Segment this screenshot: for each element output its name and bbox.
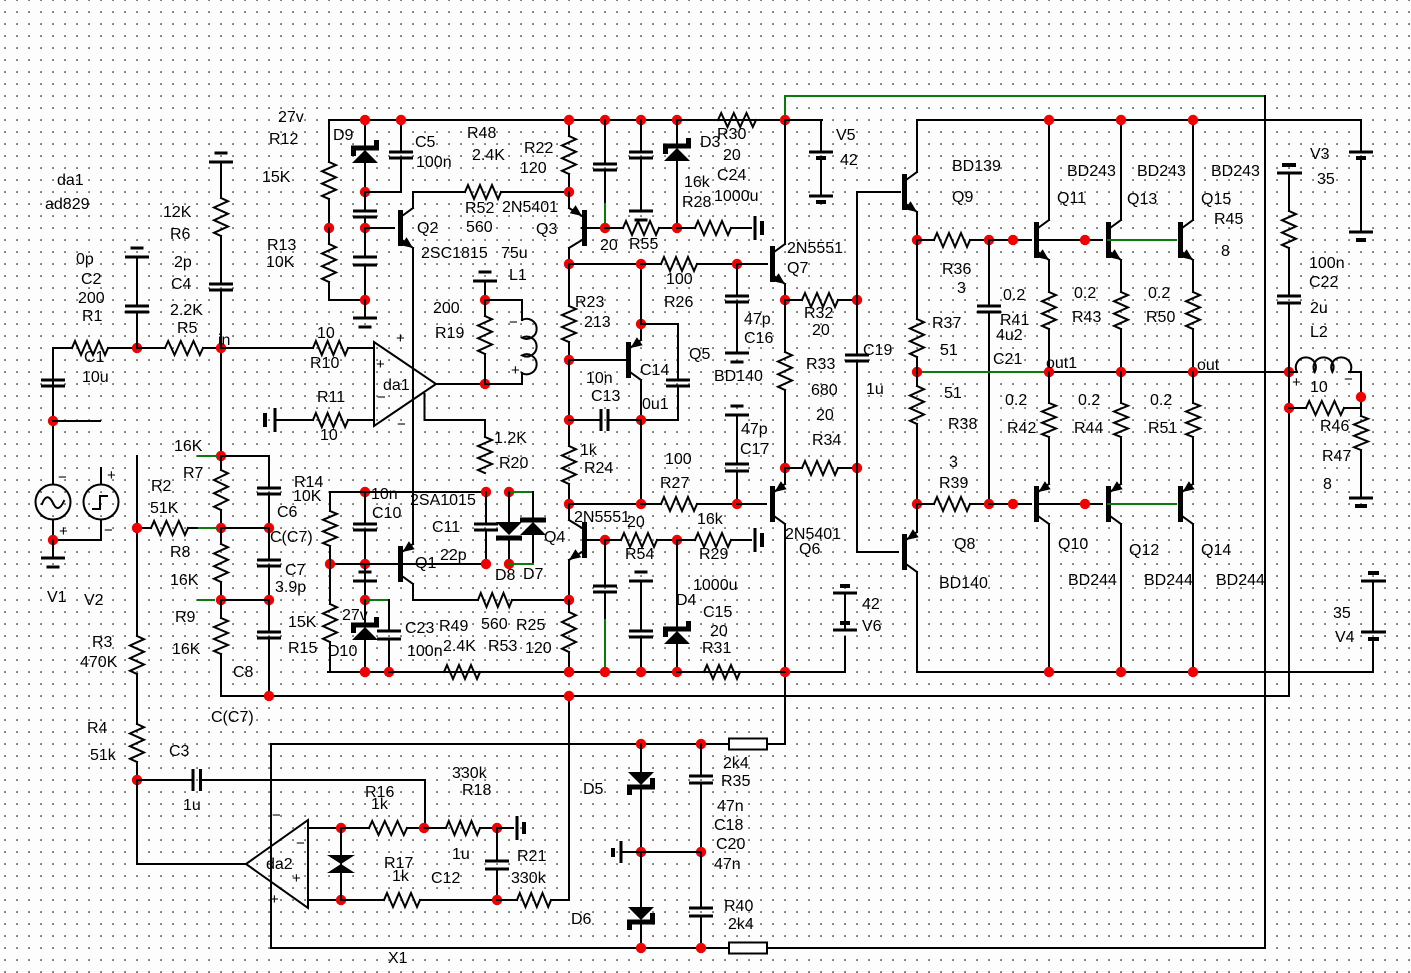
wire C14 top xyxy=(641,324,678,380)
wire Q11 emitter xyxy=(1048,260,1050,292)
label 2N5551 xyxy=(787,240,843,257)
node C21 top dot xyxy=(984,235,994,245)
svg-text:Q5: Q5 xyxy=(689,346,710,363)
svg-text:0.2: 0.2 xyxy=(1150,392,1172,409)
resistor R19 xyxy=(478,300,492,384)
resistor R14 xyxy=(323,492,365,564)
capacitor C12 xyxy=(485,828,509,900)
wire Q7 base xyxy=(737,263,767,265)
battery V5 cell2 xyxy=(809,196,833,202)
label 2SC1815 xyxy=(421,245,488,262)
node Q15 rail dot xyxy=(1188,115,1198,125)
svg-text:51: 51 xyxy=(940,342,958,359)
label 0.2 xyxy=(1005,392,1027,409)
battery V6 cell1 xyxy=(833,586,857,593)
label Q9 xyxy=(952,189,973,206)
wire top supply rail right segment xyxy=(917,119,1361,121)
svg-text:+: + xyxy=(511,362,520,379)
battery V4 link xyxy=(1372,581,1374,632)
label R15 xyxy=(288,640,317,657)
label BD243 xyxy=(1137,163,1186,180)
label 20 xyxy=(627,514,645,531)
label da1 inner minus xyxy=(377,389,386,406)
svg-text:16k: 16k xyxy=(697,511,724,528)
svg-text:out1: out1 xyxy=(1046,355,1077,372)
label Q6 xyxy=(799,541,820,558)
wire L2 right corner xyxy=(1349,372,1361,416)
green stub x605 xyxy=(604,204,606,226)
wire X1 loop left and bottom xyxy=(271,744,1265,948)
label R4 xyxy=(87,720,108,737)
node D3 bottom dot xyxy=(672,223,682,233)
svg-text:R38: R38 xyxy=(948,416,977,433)
svg-text:10: 10 xyxy=(1310,379,1328,396)
svg-text:D4: D4 xyxy=(676,592,697,609)
wire R26 row left xyxy=(569,263,641,265)
svg-text:Q15: Q15 xyxy=(1201,191,1231,208)
resistor R33 xyxy=(778,300,792,468)
label da1 outer plus xyxy=(396,330,405,347)
wire green positive feed top xyxy=(785,96,1265,120)
svg-text:V3: V3 xyxy=(1310,146,1330,163)
wire V2 top lead xyxy=(100,468,102,485)
label L2 plus xyxy=(1292,374,1301,391)
svg-text:R23: R23 xyxy=(575,294,604,311)
resistor R41 xyxy=(1042,292,1056,372)
wire Q4 emitter lead xyxy=(568,560,570,600)
svg-text:R15: R15 xyxy=(288,640,317,657)
svg-text:100: 100 xyxy=(666,271,693,288)
resistor R50 xyxy=(1186,292,1200,372)
node in dot xyxy=(216,343,226,353)
svg-text:C1: C1 xyxy=(84,349,105,366)
svg-text:10n: 10n xyxy=(586,370,613,387)
wire Q8 collector xyxy=(916,572,918,672)
wire feedback column xyxy=(136,456,138,780)
svg-text:20: 20 xyxy=(812,322,830,339)
wire mid horizontal bus y696 xyxy=(269,695,1289,697)
resistor R15 xyxy=(323,564,337,672)
label 120 xyxy=(525,640,552,657)
wire Q5 collector down xyxy=(640,380,642,420)
resistor R11 xyxy=(275,413,374,427)
capacitor C7 xyxy=(257,528,281,600)
svg-text:Q8: Q8 xyxy=(954,536,975,553)
label R10 xyxy=(310,355,339,372)
resistor R23 xyxy=(562,264,576,360)
node C3 dot xyxy=(132,775,142,785)
svg-text:R49: R49 xyxy=(439,618,468,635)
label R44 xyxy=(1074,420,1103,437)
svg-text:R19: R19 xyxy=(435,325,464,342)
label L1 plus xyxy=(511,362,520,379)
svg-text:V5: V5 xyxy=(836,127,856,144)
svg-text:R51: R51 xyxy=(1148,420,1177,437)
svg-text:D7: D7 xyxy=(523,566,544,583)
wire R27 row left xyxy=(569,503,641,505)
wire da1 output xyxy=(436,383,485,385)
wire Q14 collector xyxy=(1192,524,1194,672)
resistor R3 xyxy=(130,636,144,674)
svg-text:16K: 16K xyxy=(170,572,199,589)
label da2 inner minus xyxy=(296,835,305,852)
svg-text:C3: C3 xyxy=(169,743,190,760)
node R26 mid dot xyxy=(636,259,646,269)
svg-text:120: 120 xyxy=(520,160,547,177)
svg-text:3.9p: 3.9p xyxy=(275,579,306,596)
wire Q12 collector xyxy=(1120,524,1122,672)
svg-text:BD140: BD140 xyxy=(939,575,988,592)
node D6 bottom dot xyxy=(636,943,646,953)
node R39 right dot xyxy=(984,499,994,509)
polarized capacitor C18 xyxy=(613,841,621,863)
label 16k xyxy=(684,174,711,191)
label D9 xyxy=(333,127,354,144)
svg-text:C12: C12 xyxy=(431,870,460,887)
capacitor C11 xyxy=(474,492,498,564)
label C19 xyxy=(863,342,892,359)
svg-text:10: 10 xyxy=(317,325,335,342)
label D3 xyxy=(700,134,721,151)
wire Q3 base to R55 xyxy=(582,227,605,229)
resistor R51 xyxy=(1186,372,1200,437)
svg-text:0.2: 0.2 xyxy=(1074,285,1096,302)
svg-text:4u2: 4u2 xyxy=(996,327,1023,344)
svg-text:R28: R28 xyxy=(682,194,711,211)
svg-text:C8: C8 xyxy=(233,664,254,681)
svg-text:C11: C11 xyxy=(432,519,460,536)
capacitor C23 xyxy=(377,600,401,672)
label C1 xyxy=(84,349,105,366)
resistor R2 xyxy=(137,521,199,535)
resistor R7 xyxy=(214,456,228,528)
label R47 xyxy=(1322,448,1351,465)
svg-text:100n: 100n xyxy=(1309,255,1345,272)
node V1 bottom dot xyxy=(48,535,58,545)
svg-text:1k: 1k xyxy=(371,796,389,813)
node da2 minus dot xyxy=(336,823,346,833)
label C5 xyxy=(415,134,436,151)
label X1 xyxy=(388,950,408,967)
label R48 xyxy=(467,125,496,142)
node R39 left dot xyxy=(912,499,922,509)
node C11 bottom dot xyxy=(481,559,491,569)
node R36 left dot xyxy=(912,235,922,245)
label 20 xyxy=(600,237,618,254)
label 42 xyxy=(840,152,858,169)
svg-text:C7: C7 xyxy=(285,562,306,579)
battery V6 link xyxy=(844,593,846,630)
wire V5 corner xyxy=(785,120,821,152)
label R30 xyxy=(717,126,746,143)
resistor R55 xyxy=(605,221,677,235)
label V4 xyxy=(1335,629,1355,646)
label R55 xyxy=(629,236,658,253)
diode pair at da2 xyxy=(327,828,355,900)
label 200 xyxy=(433,300,460,317)
svg-text:C(C7): C(C7) xyxy=(270,529,313,546)
capacitor C4 xyxy=(209,236,233,348)
svg-text:C17: C17 xyxy=(740,441,769,458)
wire out1 green xyxy=(917,371,1049,373)
label 2k4 xyxy=(723,755,749,772)
wire Q2-Q1 emitter column xyxy=(412,248,414,544)
resistor R20 xyxy=(478,437,492,473)
svg-text:V6: V6 xyxy=(862,618,882,635)
capacitor x605 top xyxy=(593,120,617,204)
transistor Q5 PNP xyxy=(626,337,643,380)
label 20 xyxy=(812,322,830,339)
label V2 xyxy=(84,592,104,609)
ground flag above R6 xyxy=(209,153,233,198)
svg-text:100n: 100n xyxy=(416,154,452,171)
svg-text:2N5401: 2N5401 xyxy=(502,199,558,216)
resistor R13 xyxy=(322,228,365,300)
svg-text:C21: C21 xyxy=(993,351,1022,368)
svg-text:3: 3 xyxy=(957,280,966,297)
wire Q8 base branch xyxy=(857,468,898,552)
label 2.4K xyxy=(443,638,476,655)
svg-text:20: 20 xyxy=(816,407,834,424)
svg-text:R25: R25 xyxy=(516,617,545,634)
label C10 xyxy=(372,505,401,522)
polarized cap C22 top xyxy=(1277,165,1302,173)
label 330k xyxy=(452,765,488,782)
node R26 left dot xyxy=(564,259,574,269)
label 20 xyxy=(723,147,741,164)
node D9 top dot xyxy=(360,115,370,125)
capacitor C8 xyxy=(257,600,281,696)
svg-text:75u: 75u xyxy=(501,245,528,262)
node x605 rail dot2 xyxy=(600,667,610,677)
svg-text:R53: R53 xyxy=(488,638,517,655)
node R19 top dot xyxy=(480,295,490,305)
svg-text:R7: R7 xyxy=(183,465,204,482)
wire row564 xyxy=(330,563,486,565)
label C13 xyxy=(591,388,620,405)
svg-text:2k4: 2k4 xyxy=(728,916,754,933)
capacitor x641 bottom xyxy=(629,590,653,672)
label R20 xyxy=(499,455,528,472)
wire Q1 collector to R49 row xyxy=(413,584,478,600)
label BD139 xyxy=(952,158,1001,175)
resistor R36 xyxy=(917,233,989,247)
battery V4 cell1 xyxy=(1361,573,1386,581)
wire R8-C7 row xyxy=(221,599,269,601)
svg-text:R27: R27 xyxy=(660,475,689,492)
wire Q13 emitter xyxy=(1120,260,1122,292)
node R24 bottom dot xyxy=(564,499,574,509)
label 16K xyxy=(172,641,201,658)
resistor R6 xyxy=(214,198,228,236)
svg-text:+: + xyxy=(107,467,116,484)
label Q14 xyxy=(1201,542,1231,559)
svg-text:−: − xyxy=(272,807,281,824)
label 2u xyxy=(1310,300,1328,317)
label ad829 xyxy=(45,196,90,213)
label R27 xyxy=(660,475,689,492)
svg-text:C24: C24 xyxy=(717,167,746,184)
label da1 text xyxy=(383,377,410,394)
svg-text:R29: R29 xyxy=(699,546,728,563)
label 0.2 xyxy=(1074,285,1096,302)
svg-text:C14: C14 xyxy=(640,362,669,379)
label 120 xyxy=(520,160,547,177)
label 8 xyxy=(1221,243,1230,260)
label 16K xyxy=(170,572,199,589)
label 8 xyxy=(1323,476,1332,493)
wire base bus bottom xyxy=(989,503,1031,505)
label C15 xyxy=(703,604,732,621)
wire Q10 collector xyxy=(1048,524,1050,672)
node R49 right dot xyxy=(564,595,574,605)
svg-text:da1: da1 xyxy=(57,172,84,189)
svg-text:Q7: Q7 xyxy=(787,260,808,277)
svg-text:R40: R40 xyxy=(724,898,753,915)
label R32 xyxy=(804,305,833,322)
label 35 xyxy=(1317,171,1335,188)
node C5 top dot xyxy=(396,115,406,125)
svg-text:−: − xyxy=(296,835,305,852)
label L1 minus xyxy=(509,314,518,331)
svg-text:BD140: BD140 xyxy=(714,368,763,385)
wire Q15 collector xyxy=(1192,120,1194,220)
svg-text:R18: R18 xyxy=(462,782,491,799)
transistor Q2 2SC1815 xyxy=(398,208,413,248)
label V1 minus xyxy=(58,469,67,486)
node D8 top dot xyxy=(504,487,514,497)
wire V1 bottom xyxy=(52,520,54,541)
wire Q11 collector xyxy=(1048,120,1050,220)
resistor R43 xyxy=(1114,292,1128,372)
ground below C16 xyxy=(725,353,749,362)
svg-text:C6: C6 xyxy=(277,504,298,521)
label R12 xyxy=(269,131,298,148)
wire base bus top xyxy=(989,239,1031,241)
label C7 xyxy=(285,562,306,579)
label da2 inner plus xyxy=(292,870,301,887)
svg-text:R13: R13 xyxy=(267,237,296,254)
label R5 xyxy=(177,320,198,337)
svg-text:Q3: Q3 xyxy=(536,221,557,238)
node C12 bottom dot xyxy=(492,895,502,905)
svg-text:−: − xyxy=(509,314,518,331)
svg-text:C19: C19 xyxy=(863,342,892,359)
label C23 xyxy=(405,620,434,637)
wire C22 column down xyxy=(1288,372,1290,696)
label 2N5401 xyxy=(785,526,841,543)
wire Q4 collector lead xyxy=(568,504,570,520)
svg-text:R5: R5 xyxy=(177,320,198,337)
resistor R54 xyxy=(605,533,677,547)
label R8 xyxy=(170,544,191,561)
label R22 xyxy=(524,140,553,157)
label 3 xyxy=(957,280,966,297)
svg-text:BD243: BD243 xyxy=(1211,163,1260,180)
svg-text:2N5551: 2N5551 xyxy=(787,240,843,257)
resistor R10 xyxy=(221,341,348,355)
svg-text:V1: V1 xyxy=(47,589,67,606)
ground below R47 xyxy=(1349,498,1373,506)
node D3 rail dot xyxy=(672,115,682,125)
label R11 xyxy=(317,389,345,406)
battery V4 cell2 xyxy=(1361,632,1386,639)
svg-text:10u: 10u xyxy=(82,369,109,386)
resistor R38 xyxy=(910,372,924,504)
node C6 bottom dot xyxy=(264,523,274,533)
node D8 bottom dot xyxy=(504,559,514,569)
svg-text:10K: 10K xyxy=(266,254,295,271)
svg-text:0.2: 0.2 xyxy=(1078,392,1100,409)
label C12 xyxy=(431,870,460,887)
svg-text:20: 20 xyxy=(710,623,728,640)
wire bus y744 from X1 loop xyxy=(271,743,785,745)
svg-text:V4: V4 xyxy=(1335,629,1355,646)
transistor Q14 BD244 xyxy=(1178,481,1195,524)
svg-text:8: 8 xyxy=(1323,476,1332,493)
resistor R45 xyxy=(1282,173,1296,248)
node Q6 rail dot xyxy=(780,667,790,677)
node R34 left dot xyxy=(780,463,790,473)
svg-text:1u: 1u xyxy=(452,846,470,863)
node Q13 base dot xyxy=(1080,235,1090,245)
label 1000u xyxy=(693,577,738,594)
source V2 circle xyxy=(84,485,119,520)
label L2 minus xyxy=(1344,371,1353,388)
node out dot a xyxy=(1044,367,1054,377)
resistor R9 xyxy=(214,600,269,696)
label Q12 xyxy=(1129,542,1159,559)
svg-text:2.4K: 2.4K xyxy=(472,147,505,164)
node R46 left dot xyxy=(1284,403,1294,413)
node C7 bottom dot xyxy=(264,595,274,605)
node R34 right dot xyxy=(852,463,862,473)
svg-text:10K: 10K xyxy=(293,488,322,505)
svg-text:−: − xyxy=(1344,371,1353,388)
resistor R42 xyxy=(1042,372,1056,437)
resistor R18 xyxy=(424,821,497,835)
wire Q3 emitter lead xyxy=(568,192,570,208)
label V1 plus xyxy=(59,523,68,540)
svg-text:0u1: 0u1 xyxy=(642,396,669,413)
wire Q2 base xyxy=(365,227,394,229)
transistor Q11 BD243 xyxy=(1034,220,1049,260)
label 560 xyxy=(481,616,508,633)
label 10u xyxy=(82,369,109,386)
node C23 bottom dot xyxy=(384,667,394,677)
label BD140 xyxy=(714,368,763,385)
transistor Q12 BD244 xyxy=(1106,481,1123,524)
node D10 rail dot xyxy=(360,667,370,677)
node in vertical xyxy=(220,348,222,456)
label C8 xyxy=(233,664,254,681)
polarized capacitor C15 xyxy=(755,528,762,552)
wire da2 plus input xyxy=(308,899,341,901)
label R37 xyxy=(932,315,961,332)
svg-text:BD139: BD139 xyxy=(952,158,1001,175)
resistor R29 xyxy=(677,533,751,547)
green stub to C23 xyxy=(367,599,389,601)
label R26 xyxy=(664,294,693,311)
node Q5 emitter dot xyxy=(636,319,646,329)
label 47n xyxy=(714,856,741,873)
capacitor C19 xyxy=(845,300,869,468)
capacitor C6 xyxy=(257,488,281,528)
wire Q6 collector down xyxy=(784,524,786,744)
resistor R1 xyxy=(53,341,137,355)
label C21 xyxy=(993,351,1022,368)
node C10 top dot xyxy=(360,487,370,497)
